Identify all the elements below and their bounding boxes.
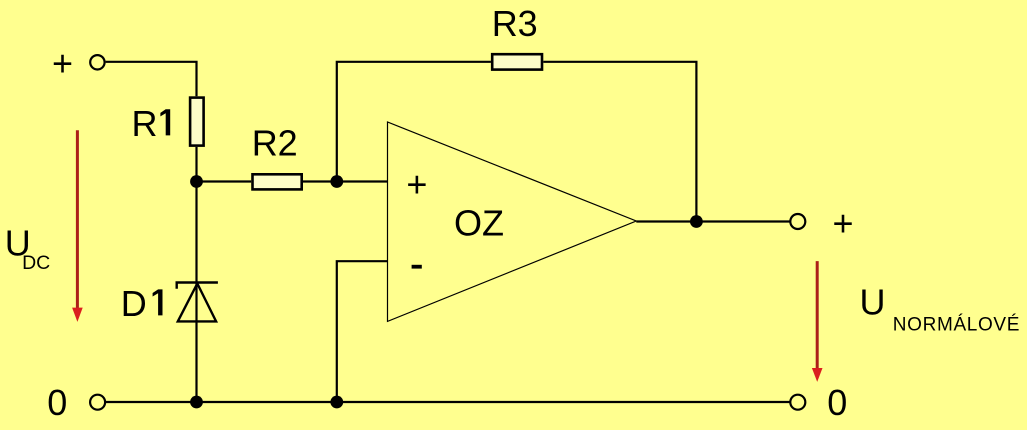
terminal circle bottom left 0 bbox=[90, 395, 105, 410]
svg-text:R3: R3 bbox=[492, 3, 538, 44]
wire R3 to output node bbox=[543, 62, 696, 222]
node junction A (R1/R2/D1) bbox=[190, 175, 203, 188]
svg-text:0: 0 bbox=[47, 382, 67, 423]
terminal circle output + bbox=[790, 214, 805, 229]
wire - input to bottom rail bbox=[337, 261, 387, 402]
op-amp OZ triangle bbox=[388, 122, 637, 321]
wire junction A to R2 bbox=[197, 180, 252, 182]
arrow U_NORMALOVE (red) line bbox=[816, 261, 819, 369]
wire input+ to R1 top bbox=[106, 62, 197, 97]
op-amp - input label bbox=[412, 265, 422, 269]
svg-text:OZ: OZ bbox=[454, 203, 504, 244]
wire op-amp output to + terminal bbox=[636, 220, 790, 222]
svg-text:R: R bbox=[132, 103, 158, 144]
resistor R3 bbox=[492, 54, 542, 69]
resistor R2 bbox=[253, 174, 302, 189]
svg-text:+: + bbox=[406, 164, 427, 205]
wire R2 to op-amp + input bbox=[303, 180, 387, 182]
node output junction bbox=[690, 215, 703, 228]
svg-text:+: + bbox=[833, 202, 854, 243]
arrow U_DC (red) head bbox=[72, 308, 83, 322]
svg-text:0: 0 bbox=[827, 382, 847, 423]
node junction D (D1 / bottom rail) bbox=[190, 396, 203, 409]
wire R1 bottom through D1 to bottom rail bbox=[195, 147, 197, 402]
terminal circle bottom right 0 bbox=[790, 395, 805, 410]
svg-text:NORMÁLOVÉ: NORMÁLOVÉ bbox=[893, 314, 1020, 335]
resistor R1 bbox=[190, 98, 204, 146]
svg-text:R2: R2 bbox=[252, 123, 298, 164]
node junction C (bottom rail / - input) bbox=[330, 396, 343, 409]
node junction B (+ input / feedback) bbox=[330, 175, 343, 188]
svg-text:DC: DC bbox=[22, 252, 50, 274]
diode D1 zener cathode bar bbox=[177, 283, 218, 289]
terminal circle input + bbox=[90, 55, 104, 69]
arrow U_DC (red) line bbox=[76, 130, 79, 309]
svg-text:U: U bbox=[860, 282, 886, 323]
svg-text:D: D bbox=[121, 283, 147, 324]
wire junction B up to feedback rail bbox=[337, 62, 491, 182]
wire bottom rail bbox=[106, 401, 790, 403]
diode D1 zener triangle bbox=[178, 284, 216, 322]
arrow U_NORMALOVE (red) head bbox=[812, 368, 823, 382]
svg-text:+: + bbox=[52, 43, 73, 84]
